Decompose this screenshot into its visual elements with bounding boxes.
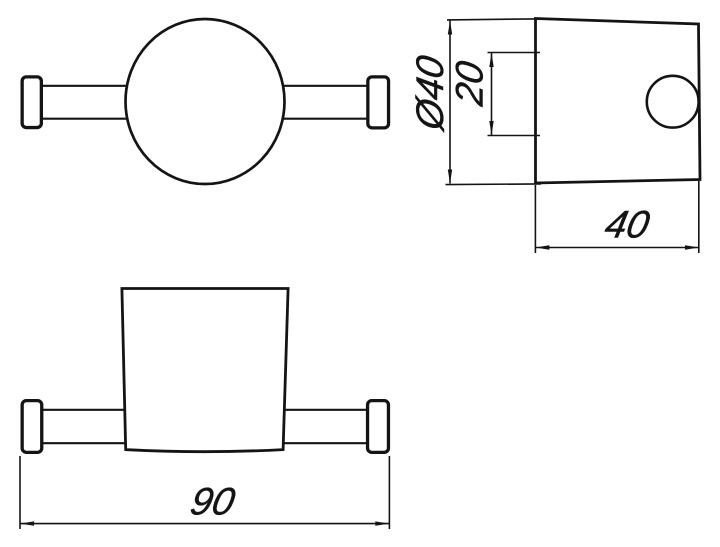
front view: left peg cap [22,77,41,128]
dimension 20: dimension line [491,53,493,135]
front view: right peg stem upper line [283,85,368,87]
dimension 40: right extension line [698,181,700,253]
dimension Ø40: dimension line [449,21,451,184]
bottom view: hook base plate outline [122,289,288,452]
dimension 20: upper extension line [488,52,541,54]
bottom view: left peg stem lower line [42,442,125,444]
dimension 40: right arrowhead [685,245,699,249]
svg-text:Ø40: Ø40 [409,52,452,135]
dimension 40: left extension line [534,185,536,253]
dimension 20: top arrowhead [489,53,493,67]
dimension 40: dimension line [535,247,699,249]
dimension Ø40: top arrowhead [448,21,452,35]
bottom view: right peg cap [368,401,389,453]
dimension Ø40: bottom arrowhead [448,170,452,184]
front view: right peg cap [368,77,389,128]
dimension 20: lower extension line [488,135,541,137]
dimension 20: bottom arrowhead [489,121,493,135]
svg-text:90: 90 [187,481,239,524]
side view: wall plate outline [536,19,701,184]
bottom view: left peg cap [22,401,42,453]
side view: peg hole circle [647,76,699,128]
dimension Ø40: bottom extension line [446,183,542,186]
bottom view: right peg stem upper line [284,409,367,411]
dimension 40: left arrowhead [535,245,549,249]
dimension 90: right arrowhead [375,521,389,525]
dimension 90: dimension line [20,523,389,525]
bottom view: left peg stem upper line [42,409,124,411]
dimension 90: right extension line [388,456,390,529]
dimension Ø40: top extension line [447,19,536,20]
front view: left peg stem lower line [42,118,128,120]
front view: left peg stem upper line [42,85,128,87]
svg-text:20: 20 [449,58,492,110]
bottom view: right peg stem lower line [284,442,367,444]
front view: right peg stem lower line [283,118,368,120]
dimension 90: left arrowhead [20,521,34,525]
svg-text:40: 40 [601,204,653,247]
front view: hook body circle [126,19,285,184]
dimension 90: left extension line [19,456,21,529]
